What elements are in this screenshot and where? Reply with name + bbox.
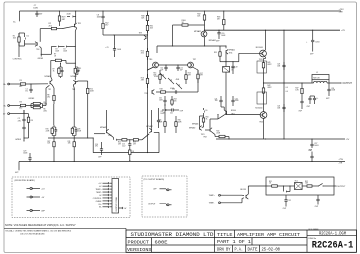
capacitor C1 input filter xyxy=(30,84,32,87)
svg-text:-2V: -2V xyxy=(346,139,350,141)
svg-text:2.2U: 2.2U xyxy=(122,145,125,147)
svg-text:BD139: BD139 xyxy=(240,189,246,191)
revision box xyxy=(4,227,126,229)
wire TR19 base xyxy=(154,131,159,133)
junction feedback node xyxy=(30,105,31,106)
resistor R41 emitter xyxy=(265,57,267,59)
wire r7 node line xyxy=(65,60,67,63)
svg-text:TR9: TR9 xyxy=(139,32,142,34)
svg-text:PART 1 OF 1: PART 1 OF 1 xyxy=(217,239,251,245)
wire x165 link xyxy=(164,104,166,118)
svg-text:4K7: 4K7 xyxy=(105,25,108,27)
svg-text:4K7: 4K7 xyxy=(62,19,65,21)
svg-text:10/63: 10/63 xyxy=(315,42,319,44)
svg-text:TR15: TR15 xyxy=(259,59,263,61)
svg-text:10N: 10N xyxy=(215,100,218,102)
svg-text:TR6: TR6 xyxy=(149,59,152,61)
wire TR3 emitter right xyxy=(76,81,79,82)
connector pin +LV xyxy=(27,188,30,190)
capacitor C9 electrolytic xyxy=(114,35,116,45)
dashed box FROM PSU BOARD xyxy=(12,177,130,218)
svg-text:4148: 4148 xyxy=(176,79,180,81)
svg-text:MPSA42: MPSA42 xyxy=(209,39,216,42)
wire R8 to pair x54 xyxy=(53,104,55,125)
svg-text:0VREF: 0VREF xyxy=(28,98,35,100)
svg-text:-75V: -75V xyxy=(339,159,344,161)
column x54 pair R26 C17 xyxy=(53,137,54,138)
wire bias node vertical xyxy=(40,28,46,30)
resistor R22 xyxy=(119,139,122,141)
svg-text:D4: D4 xyxy=(63,49,65,51)
svg-text:OUTPUT: OUTPUT xyxy=(148,203,156,205)
junction -60V outputs xyxy=(265,138,266,139)
resistor R29 from +VE rail xyxy=(59,10,60,11)
svg-text:TR3: TR3 xyxy=(72,89,75,91)
resistor R34 predriver xyxy=(203,116,205,118)
wire output rail xyxy=(264,82,313,84)
components x160 vertical xyxy=(158,108,160,118)
resistor R40 lower xyxy=(212,132,215,134)
svg-text:4148: 4148 xyxy=(55,51,59,53)
svg-text:100N: 100N xyxy=(159,99,163,101)
svg-text:FILE NAME: FILE NAME xyxy=(309,228,320,231)
capacitor C16 to 0VP xyxy=(101,142,103,147)
wire relay to output xyxy=(327,185,334,187)
capacitor C20 rail decouple xyxy=(218,30,219,31)
svg-text:R44: R44 xyxy=(174,99,177,101)
capacitor C12 between xyxy=(177,64,178,65)
svg-text:0R22: 0R22 xyxy=(267,64,271,66)
resistor R6 xyxy=(31,107,33,109)
svg-text:R28: R28 xyxy=(77,129,80,131)
wire feedback up xyxy=(45,88,47,95)
wire line y152.6 xyxy=(93,152,159,154)
diode D8 chain to 0VP xyxy=(162,109,164,111)
svg-text:0VREF: 0VREF xyxy=(96,201,103,203)
svg-text:TEMP+: TEMP+ xyxy=(95,189,101,191)
svg-text:TR7: TR7 xyxy=(193,59,196,61)
svg-text:C40: C40 xyxy=(159,98,162,100)
svg-text:10P: 10P xyxy=(160,70,163,72)
resistor R5 xyxy=(31,103,33,105)
wire TR6 TR7 bases xyxy=(158,64,187,66)
svg-text:R49 10R: R49 10R xyxy=(313,77,320,79)
svg-text:R26: R26 xyxy=(46,129,49,131)
wire bias emitter xyxy=(225,54,227,81)
svg-text:11K & TJT 2ND RELAY ADDED: 11K & TJT 2ND RELAY ADDED xyxy=(20,232,45,235)
svg-text:TEMP-: TEMP- xyxy=(96,192,102,194)
resistor R17 xyxy=(197,70,199,74)
wire +60V rail xyxy=(205,29,341,31)
resistor R16 xyxy=(147,74,149,78)
resistor R42 emitter lower xyxy=(263,83,265,88)
svg-text:4148: 4148 xyxy=(67,14,71,16)
resistor R23 xyxy=(130,139,134,141)
svg-text:IN-: IN- xyxy=(99,207,102,209)
diode D9 predriver xyxy=(203,108,205,110)
wire TR1 emitter down xyxy=(75,28,76,31)
wire second vertical x284 xyxy=(283,30,285,139)
svg-text:2K2: 2K2 xyxy=(141,53,144,55)
svg-text:DWG No: DWG No xyxy=(309,238,317,240)
svg-text:TR1: TR1 xyxy=(78,23,82,25)
column x74 pair R28 C18 xyxy=(74,137,75,138)
svg-text:4148: 4148 xyxy=(63,51,67,53)
resistor R15b xyxy=(185,70,187,75)
svg-text:2K2: 2K2 xyxy=(49,25,52,27)
diode D3 chain xyxy=(56,45,58,47)
title block col split mid-right xyxy=(306,230,308,252)
svg-text:C34: C34 xyxy=(235,98,238,100)
wire TR3 collector down xyxy=(72,85,75,88)
wire y46 vas line xyxy=(157,45,226,47)
capacitor C15 xyxy=(129,140,131,142)
resistor R18 xyxy=(156,91,161,93)
wire x88 to lower line xyxy=(87,95,89,138)
capacitor C21 bias lower xyxy=(220,96,222,98)
capacitor cluster 0VP b xyxy=(310,95,315,97)
svg-text:R45: R45 xyxy=(159,120,162,122)
resistor R32 xyxy=(204,10,205,11)
resistor R12 xyxy=(102,20,104,23)
capacitor C24 xyxy=(283,104,285,107)
resistor R9 xyxy=(28,114,30,118)
svg-text:C26: C26 xyxy=(331,88,334,90)
wire +VE left drop xyxy=(19,11,21,20)
svg-text:TEMP+: TEMP+ xyxy=(209,195,215,197)
svg-text:2K2: 2K2 xyxy=(19,86,22,88)
svg-text:4K7: 4K7 xyxy=(217,19,220,21)
diode D10 chain xyxy=(109,134,114,138)
svg-text:IN-: IN- xyxy=(3,106,6,108)
capacitor C33 relay xyxy=(317,195,319,198)
svg-text:(FROM PSU BOARD): (FROM PSU BOARD) xyxy=(15,179,36,182)
svg-text:AMPLIFIER AMP CIRCUIT: AMPLIFIER AMP CIRCUIT xyxy=(237,232,300,238)
wire +VE top rail xyxy=(20,10,342,12)
wire bias to diode chain xyxy=(41,53,51,55)
svg-text:R23: R23 xyxy=(133,142,136,144)
transistor TR22 predriver xyxy=(226,111,228,114)
resistor R35 xyxy=(219,50,221,52)
diode D4 chain xyxy=(58,46,64,48)
dashed box TO OUTPUT BOARD xyxy=(142,176,187,217)
connector pin 0VP xyxy=(27,210,30,212)
node CONTROL xyxy=(18,33,20,57)
diode D1 control clamp xyxy=(24,33,26,37)
svg-text:0VREF: 0VREF xyxy=(38,58,43,60)
junction bias out xyxy=(225,61,226,62)
svg-text:R11: R11 xyxy=(68,141,71,143)
wire output node top xyxy=(263,72,265,83)
svg-text:D1: D1 xyxy=(27,35,29,37)
wire -VE rail xyxy=(19,161,345,163)
capacitor C27 on -60V xyxy=(311,138,312,139)
wire TR1 collector drop xyxy=(75,10,76,11)
capacitor C29 on -VE rail xyxy=(29,161,30,162)
svg-text:0.4: 0.4 xyxy=(286,91,288,93)
capacitor C19 bias xyxy=(232,62,234,64)
svg-text:R9: R9 xyxy=(31,120,33,122)
svg-text:TR22: TR22 xyxy=(231,113,235,115)
relay contact xyxy=(315,185,318,187)
svg-text:R40: R40 xyxy=(216,131,219,133)
wire R300 drop xyxy=(172,25,174,46)
resistor R300 xyxy=(173,24,179,26)
svg-text:R6: R6 xyxy=(43,108,45,110)
resistor R8 xyxy=(53,92,55,95)
svg-text:R25: R25 xyxy=(188,73,191,75)
transistor TR17 lower driver xyxy=(209,128,211,131)
svg-text:25-02-00: 25-02-00 xyxy=(262,249,281,253)
title block versions row xyxy=(151,245,153,252)
svg-text:C41: C41 xyxy=(170,113,173,115)
svg-text:+2V: +2V xyxy=(341,30,345,32)
svg-text:10P: 10P xyxy=(180,70,183,72)
svg-text:C12: C12 xyxy=(180,68,183,70)
inductor L1 with resistor R49 xyxy=(312,75,329,80)
svg-text:DRN BY: DRN BY xyxy=(217,249,231,253)
terminal 0V input xyxy=(8,113,10,115)
svg-text:R35: R35 xyxy=(214,52,217,54)
svg-text:TR16: TR16 xyxy=(259,122,263,124)
wire bias lower xyxy=(225,80,227,115)
wire TR2 collector down xyxy=(52,85,54,88)
title block PART row xyxy=(251,238,253,245)
svg-text:1K: 1K xyxy=(53,70,55,72)
resistor R7 xyxy=(51,59,56,61)
transistor TR4 bias xyxy=(36,42,38,45)
capacitor C22 on +60V xyxy=(312,30,313,31)
svg-text:R27: R27 xyxy=(47,141,50,143)
capacitor C7 on +VE rail xyxy=(36,10,37,11)
wire bend x93 xyxy=(92,138,94,153)
title block rows xyxy=(126,237,307,239)
transistor TR15 output npn xyxy=(260,50,267,57)
svg-text:C21: C21 xyxy=(215,98,218,100)
svg-text:R4: R4 xyxy=(20,102,22,104)
svg-text:MPSA92: MPSA92 xyxy=(194,30,201,33)
resistor R52 in relay box xyxy=(302,185,304,187)
wire TR16 collector xyxy=(263,118,265,139)
svg-text:BD140: BD140 xyxy=(231,110,236,112)
wire relay feed xyxy=(248,185,268,187)
resistor R24 xyxy=(129,147,131,150)
zobel capacitor C25 xyxy=(301,97,303,99)
svg-text:DATE: DATE xyxy=(248,249,258,253)
resistor R51 in relay box xyxy=(268,185,272,187)
svg-text:PRODUCT: PRODUCT xyxy=(128,239,150,245)
transistor TR10 MPSA92 xyxy=(204,24,206,31)
svg-text:CONTROL: CONTROL xyxy=(93,198,102,200)
svg-text:C+: C+ xyxy=(316,98,318,100)
svg-text:C13: C13 xyxy=(172,89,175,91)
svg-text:(TO OU/PUT BOARD): (TO OU/PUT BOARD) xyxy=(144,178,165,181)
svg-text:R51: R51 xyxy=(269,181,272,183)
svg-text:C32: C32 xyxy=(288,200,291,202)
junction +60V drops xyxy=(265,30,266,31)
svg-text:P.A.: P.A. xyxy=(235,249,244,253)
svg-text:0R22: 0R22 xyxy=(267,87,271,89)
svg-text:NOTE: VOLTAGES MEASURED AT 230: NOTE: VOLTAGES MEASURED AT 230V(1)%. A.C… xyxy=(5,223,76,227)
svg-text:TEMP-: TEMP- xyxy=(209,203,215,205)
terminal B+ supply xyxy=(19,20,20,21)
wire x75 vertical xyxy=(74,47,76,68)
resistor R15a xyxy=(159,70,161,75)
title block col split left-mid xyxy=(214,230,216,252)
svg-text:R46: R46 xyxy=(178,120,181,122)
svg-text:0VP: 0VP xyxy=(41,211,45,213)
title block outline xyxy=(126,230,357,252)
capacitor C26 on output xyxy=(328,82,329,83)
svg-text:100N: 100N xyxy=(235,100,239,102)
junction input node xyxy=(30,83,31,84)
transistor TR16 output pnp xyxy=(263,98,265,112)
capacitor C23 xyxy=(283,62,285,65)
svg-text:L1: L1 xyxy=(316,72,318,74)
capacitor C8 rail decouple xyxy=(102,10,103,11)
svg-text:MJ15004: MJ15004 xyxy=(255,107,262,109)
capacitor C13 xyxy=(170,91,175,93)
resistor R44 vas mid xyxy=(171,96,173,98)
svg-text:10K: 10K xyxy=(174,100,177,102)
capacitor C2 feedback xyxy=(23,110,25,117)
diode string D6 xyxy=(168,78,174,84)
svg-text:R2C26A-1 : LEGEND: REL WIRED N: R2C26A-1 : LEGEND: REL WIRED NUMBER NEAR… xyxy=(6,230,72,233)
svg-text:100N: 100N xyxy=(33,7,38,9)
svg-text:TR21: TR21 xyxy=(201,134,205,136)
transistor TR7 xyxy=(188,62,194,68)
svg-text:D9: D9 xyxy=(205,110,207,112)
wire -60V rail xyxy=(216,138,345,140)
connector CONN1 pin 0V out xyxy=(119,207,123,209)
title block product row xyxy=(151,238,153,245)
title block DRN row xyxy=(232,245,234,252)
resistor R10 emitter xyxy=(87,87,89,88)
diode string D5 xyxy=(160,73,166,79)
svg-text:+VE: +VE xyxy=(339,12,344,14)
relay RL1 coil xyxy=(295,183,303,190)
svg-text:CONTROL: CONTROL xyxy=(13,59,22,61)
resistor R30 xyxy=(147,13,149,15)
svg-text:2K2: 2K2 xyxy=(47,96,50,98)
capacitor C11 between xyxy=(165,64,166,65)
wire ltp load left xyxy=(51,77,52,80)
svg-text:R15: R15 xyxy=(153,73,156,75)
relay box outline xyxy=(266,177,334,195)
wire TR4 emitter down xyxy=(40,46,42,48)
resistor R31 xyxy=(147,23,149,25)
transistor TR11 bias xyxy=(225,50,227,53)
transistor TR1 xyxy=(75,14,77,23)
diode D12 relay xyxy=(284,190,286,192)
svg-text:C24: C24 xyxy=(277,105,280,107)
title block file name cell xyxy=(307,235,357,237)
wire main vertical bus xyxy=(147,10,148,11)
junction bus y35 xyxy=(147,34,148,35)
resistor R13 xyxy=(74,67,76,68)
resistor R45 vas mid xyxy=(164,118,166,122)
svg-text:OUTPUT: OUTPUT xyxy=(337,186,346,188)
svg-text:0.4: 0.4 xyxy=(286,87,288,89)
svg-text:IN+: IN+ xyxy=(99,204,102,206)
svg-text:VERSIONS: VERSIONS xyxy=(127,247,152,253)
svg-text:D3: D3 xyxy=(55,49,57,51)
svg-text:TITLE: TITLE xyxy=(217,232,233,238)
svg-text:RL1: RL1 xyxy=(295,180,298,182)
resistor R2 emitter of TR1 xyxy=(62,26,74,28)
resistor R11 x74 xyxy=(73,138,75,142)
wire y35 to bus xyxy=(114,34,148,36)
junction x114 y35 xyxy=(113,34,114,35)
svg-text:C19: C19 xyxy=(235,66,238,68)
transistor TR20 thermal xyxy=(245,195,247,198)
svg-text:R3: R3 xyxy=(20,80,22,82)
svg-text:R5: R5 xyxy=(43,102,45,104)
svg-text:R2C26A-1.DGM: R2C26A-1.DGM xyxy=(319,233,346,237)
svg-text:C15: C15 xyxy=(122,144,125,146)
svg-text:10/63: 10/63 xyxy=(314,145,318,147)
svg-text:22K1: 22K1 xyxy=(43,110,47,112)
wire TR18 collector up xyxy=(106,110,108,125)
svg-text:-VE: -VE xyxy=(339,162,343,164)
svg-text:+ C9: + C9 xyxy=(105,47,109,49)
wire vas lower xyxy=(182,91,198,93)
svg-text:OUTPUT CONN: OUTPUT CONN xyxy=(116,196,118,211)
transistor TR19 xyxy=(151,129,153,132)
resistor R33 to +VE xyxy=(223,11,225,14)
svg-text:TR11: TR11 xyxy=(229,52,233,54)
transistor TR8 xyxy=(151,90,153,93)
svg-text:MJ15003: MJ15003 xyxy=(256,47,263,49)
svg-text:STUDIOMASTER DIAMOND LTD: STUDIOMASTER DIAMOND LTD xyxy=(131,232,214,238)
svg-text:100N: 100N xyxy=(97,17,102,19)
capacitor C32 relay xyxy=(285,195,287,198)
capacitor cluster 0VP a xyxy=(309,96,311,98)
resistor R1 control xyxy=(18,33,20,37)
wire TR18 base xyxy=(94,133,106,135)
svg-text:R34: R34 xyxy=(206,117,209,119)
capacitor C40 vas mid xyxy=(164,96,166,98)
svg-text:R18: R18 xyxy=(160,89,163,91)
transistor TR9 on bus xyxy=(145,36,147,39)
terminal IN+ xyxy=(8,83,10,85)
resistor R27 x54 xyxy=(53,138,55,142)
junction output x284 xyxy=(283,82,284,83)
capacitor C31 on -VE rail xyxy=(311,161,312,162)
transistor TR21 predriver xyxy=(199,126,201,129)
svg-text:R17: R17 xyxy=(200,73,203,75)
diode D2 near TR1 xyxy=(70,15,72,17)
wire x103 down xyxy=(102,32,104,35)
svg-text:R13: R13 xyxy=(78,68,81,70)
connector pin -LV xyxy=(27,196,30,198)
load pair R13b C6 xyxy=(74,75,76,77)
load pair R7b C5 xyxy=(60,63,62,67)
title block TITLE cell xyxy=(234,230,236,238)
resistor R14 xyxy=(147,48,149,51)
svg-text:R2C26A-1: R2C26A-1 xyxy=(312,241,354,252)
diode string D7 xyxy=(176,83,182,89)
wire y46 left drop xyxy=(156,46,158,53)
wire TR4 base xyxy=(26,43,36,45)
svg-text:0VREF: 0VREF xyxy=(15,139,22,141)
svg-text:R22: R22 xyxy=(118,142,121,144)
transistor TR18 xyxy=(106,130,108,133)
svg-text:OUTPUT: OUTPUT xyxy=(343,83,353,85)
capacitor C34 bias lower xyxy=(232,96,234,98)
wire lower line y138 xyxy=(48,137,93,139)
resistor R46 vas mid xyxy=(175,116,177,118)
